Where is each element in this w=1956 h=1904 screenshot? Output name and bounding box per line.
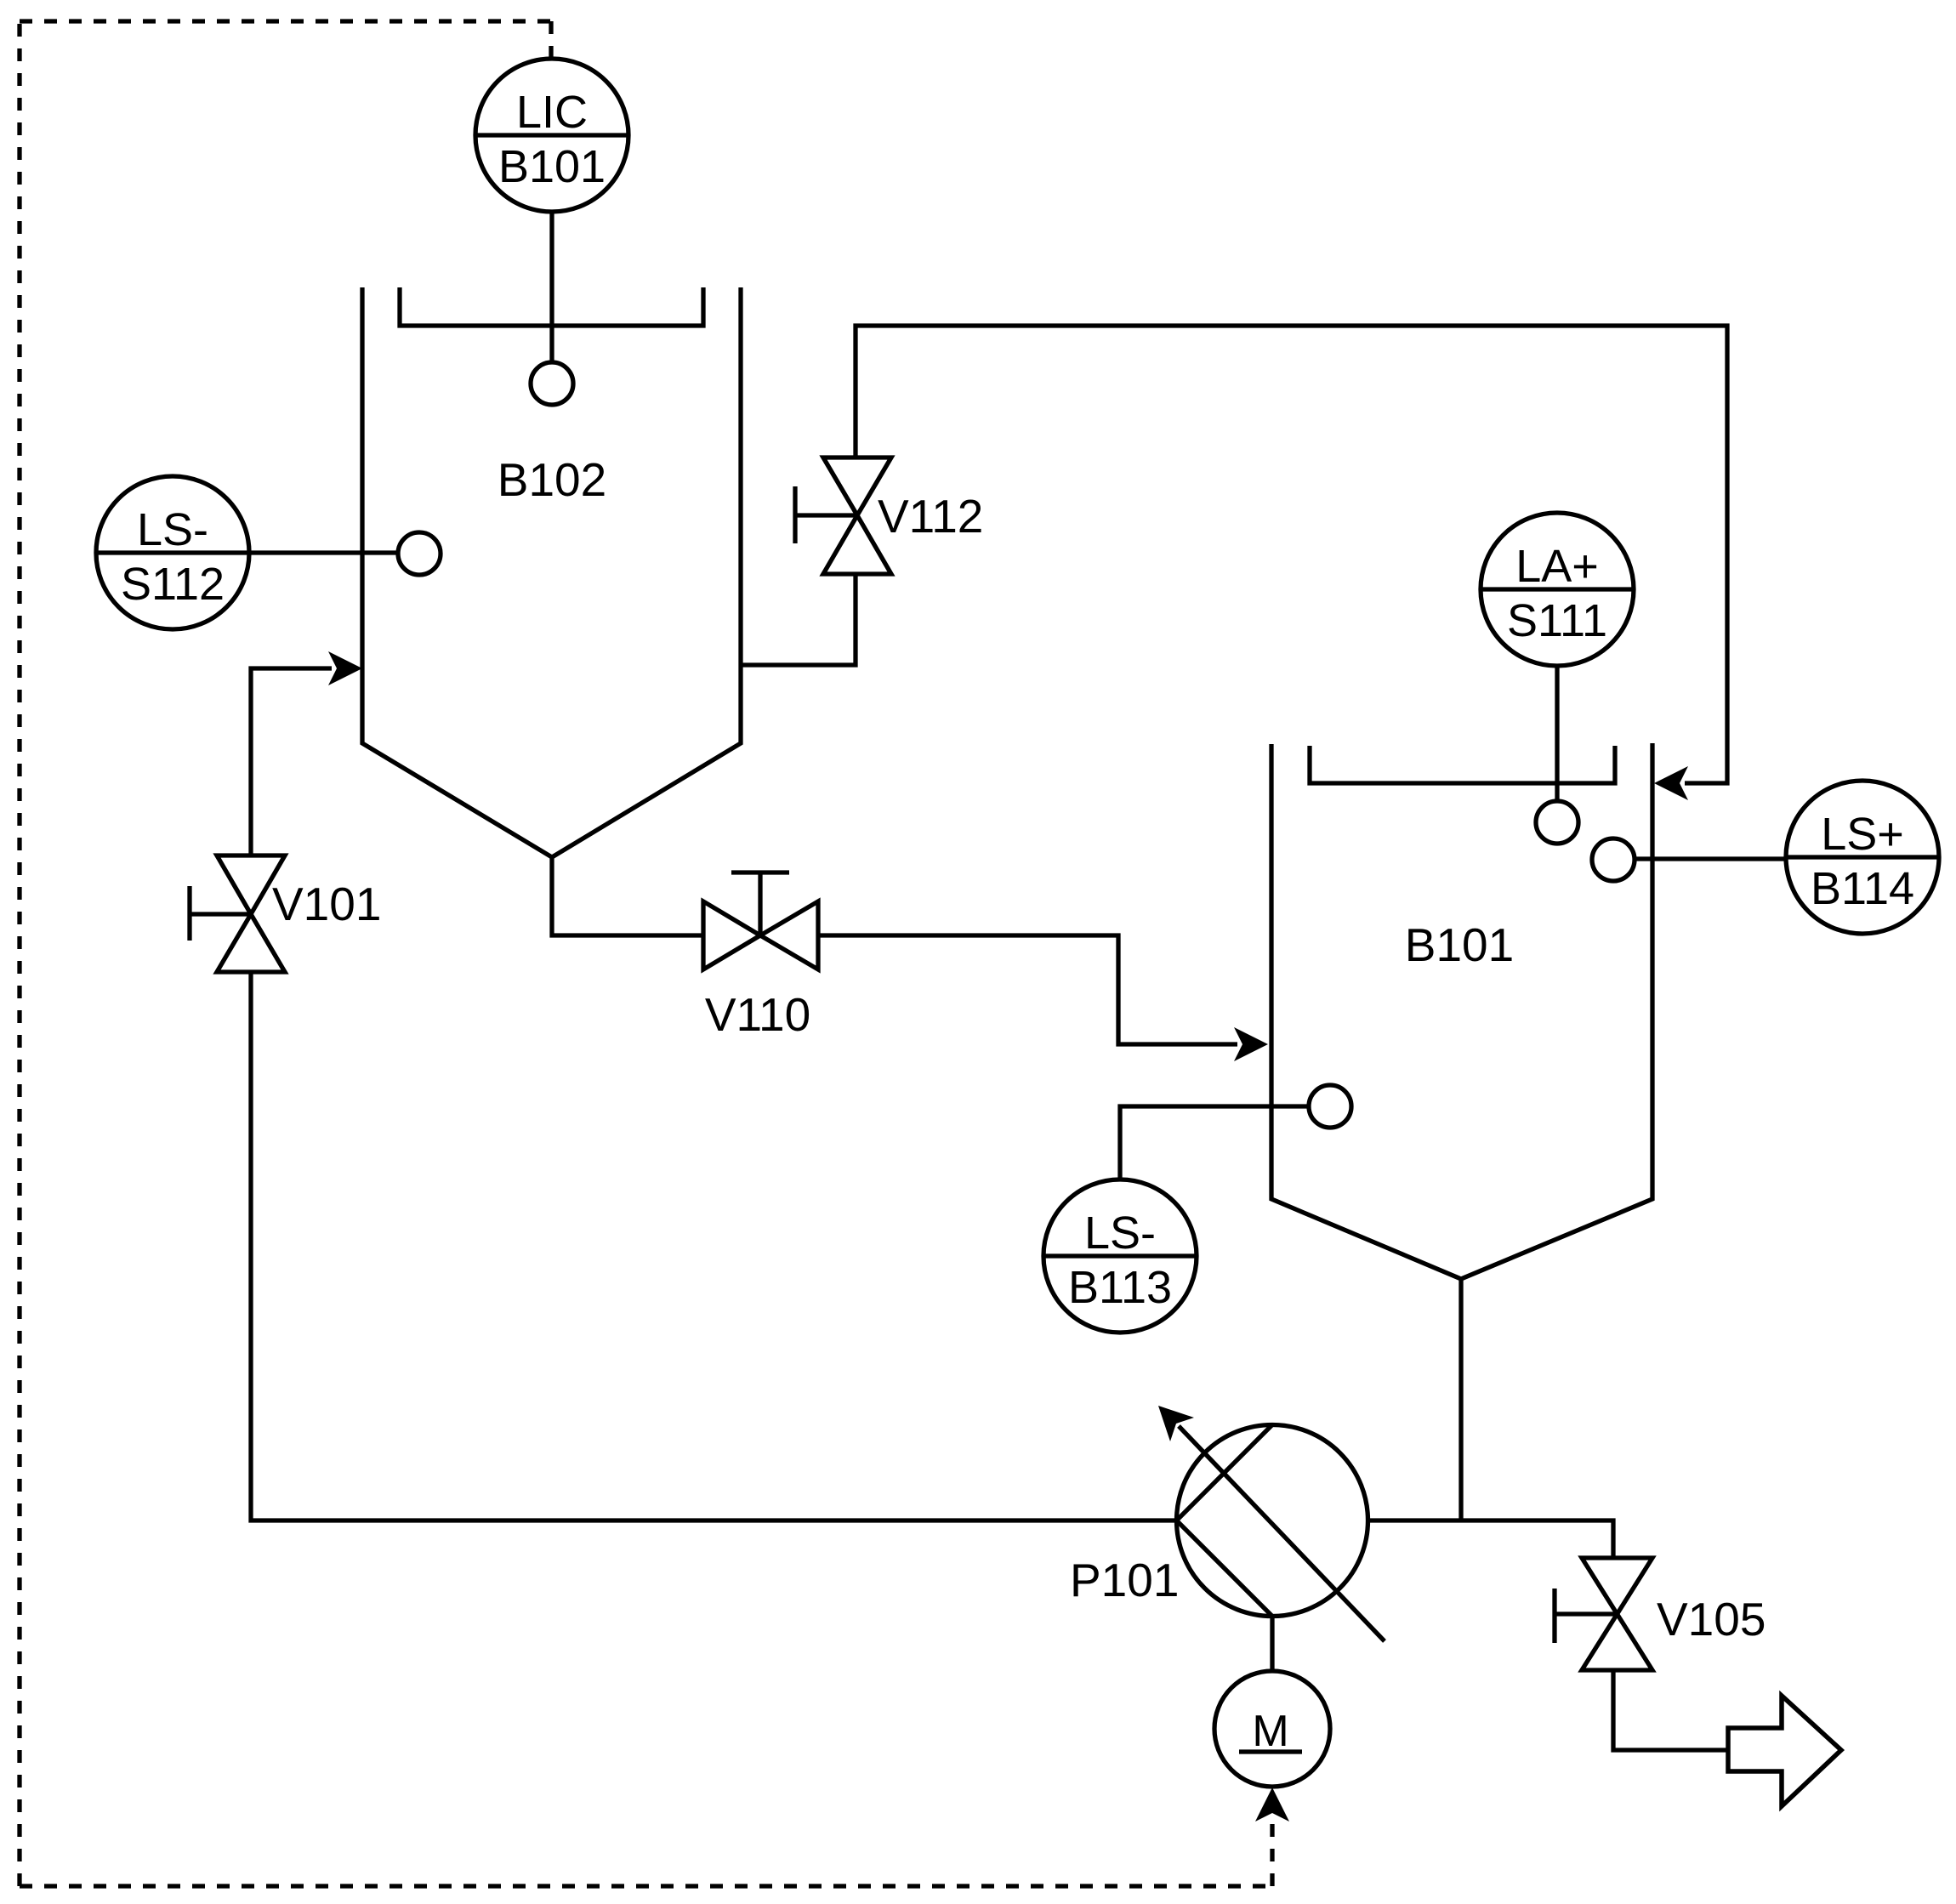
arrowhead into B101 right bbox=[1654, 766, 1688, 800]
wire V105 to outlet arrow bbox=[1613, 1670, 1728, 1750]
instrument LA+ S111 bbox=[1481, 513, 1634, 666]
svg-text:LS-: LS- bbox=[1084, 1208, 1156, 1259]
tank B102 bbox=[362, 287, 741, 857]
instrument LS+ B114 bbox=[1786, 781, 1939, 934]
outlet block arrow bbox=[1728, 1696, 1841, 1806]
wire dashed control line left vertical bbox=[17, 21, 21, 1886]
sensor circle in B101 lower-left bbox=[1309, 1085, 1351, 1128]
svg-text:V112: V112 bbox=[878, 490, 983, 543]
svg-text:P101: P101 bbox=[1070, 1554, 1179, 1606]
svg-text:B101: B101 bbox=[1405, 918, 1514, 971]
arrowhead into motor M bbox=[1255, 1787, 1289, 1822]
wire V110 to B101 inlet bbox=[818, 935, 1237, 1044]
wire dashed drop to LIC bbox=[549, 21, 553, 58]
arrowhead into B101 left bbox=[1234, 1027, 1268, 1061]
motor M bbox=[1214, 1671, 1330, 1787]
svg-text:V101: V101 bbox=[272, 878, 381, 930]
pump P101 bbox=[1177, 1425, 1368, 1617]
valve V112 bbox=[823, 458, 891, 515]
valve V101 bbox=[217, 855, 285, 914]
instrument LS- S112 bbox=[96, 476, 249, 629]
wire S112 to sensor bbox=[249, 550, 398, 554]
wire V101 up into B102 inlet bbox=[251, 668, 332, 855]
valve V105 bbox=[1582, 1558, 1652, 1614]
valve V110 bbox=[703, 901, 760, 969]
tank B101 bbox=[1271, 743, 1652, 1279]
svg-text:B114: B114 bbox=[1811, 863, 1914, 914]
wire dashed control line bottom horizontal bbox=[20, 1884, 1272, 1888]
svg-text:B102: B102 bbox=[498, 453, 606, 506]
wire B113 to sensor bbox=[1120, 1106, 1310, 1179]
svg-text:S112: S112 bbox=[121, 559, 225, 610]
sensor circle in B101 top bbox=[1536, 801, 1578, 844]
wire B114 to sensor bbox=[1635, 856, 1786, 861]
instrument LS- B113 bbox=[1043, 1179, 1197, 1333]
wire S111 to sensor bbox=[1555, 666, 1559, 802]
sensor circle in B101 right bbox=[1592, 838, 1635, 881]
instrument LIC B101 bbox=[475, 59, 628, 212]
wire B101 outlet down to pump line bbox=[1458, 1279, 1463, 1520]
wire LIC to sensor bbox=[549, 212, 554, 363]
wire V112 over the top into B101 bbox=[856, 326, 1727, 783]
svg-text:M: M bbox=[1252, 1707, 1288, 1756]
sensor circle in B102 top bbox=[531, 362, 573, 405]
tank B102 inner rim bbox=[400, 287, 703, 326]
sensor circle in B102 left bbox=[398, 532, 441, 575]
svg-text:LS+: LS+ bbox=[1821, 809, 1904, 860]
wire dashed riser to motor M bbox=[1270, 1820, 1274, 1886]
svg-text:LIC: LIC bbox=[516, 87, 588, 138]
wire pump to motor bbox=[1270, 1616, 1274, 1671]
wire B102 side outlet to V112 bbox=[741, 574, 856, 665]
svg-text:B113: B113 bbox=[1068, 1262, 1172, 1313]
wire pump discharge to V105 bbox=[1368, 1520, 1613, 1558]
arrowhead into B102 bbox=[328, 651, 362, 685]
svg-text:V110: V110 bbox=[705, 988, 810, 1041]
svg-text:LA+: LA+ bbox=[1515, 541, 1599, 592]
tank B101 inner rim bbox=[1310, 746, 1615, 783]
svg-text:S111: S111 bbox=[1507, 595, 1607, 646]
wire dashed control line top horizontal bbox=[20, 19, 551, 23]
svg-text:LS-: LS- bbox=[137, 504, 208, 555]
wire V101 down to pump suction bbox=[251, 972, 1176, 1520]
wire B102 outlet to V110 bbox=[552, 857, 703, 935]
svg-text:V105: V105 bbox=[1657, 1593, 1766, 1645]
svg-text:B101: B101 bbox=[498, 141, 606, 192]
